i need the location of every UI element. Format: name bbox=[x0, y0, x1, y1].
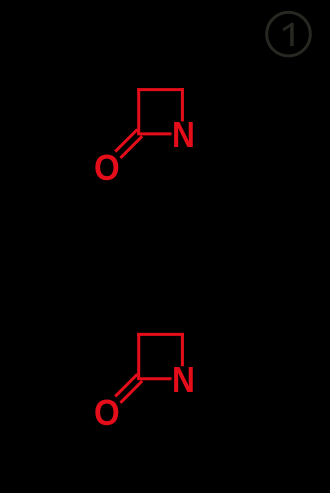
ring top bond bbox=[137, 333, 184, 336]
circled label 1 bbox=[267, 12, 311, 56]
ring left bond bbox=[137, 333, 140, 379]
C=O double bond line 1 bbox=[115, 374, 137, 396]
C=O double bond line 2 bbox=[120, 381, 142, 403]
ring right bond bbox=[181, 333, 184, 366]
C=O double bond line 2 bbox=[120, 136, 142, 158]
ring bottom bond C-N bbox=[137, 377, 171, 380]
svg-text:O: O bbox=[94, 147, 120, 188]
svg-text:N: N bbox=[172, 359, 195, 400]
molecule 1 : 2-azetidinone (top) bbox=[115, 88, 184, 158]
ring right bond bbox=[181, 88, 184, 121]
ring bottom bond C-N bbox=[137, 132, 171, 135]
ring top bond bbox=[137, 88, 184, 91]
svg-text:O: O bbox=[94, 392, 120, 433]
ring left bond bbox=[137, 88, 140, 134]
svg-text:N: N bbox=[172, 114, 195, 155]
molecule 2 : 2-azetidinone (bottom) bbox=[115, 333, 184, 403]
C=O double bond line 1 bbox=[115, 129, 137, 151]
